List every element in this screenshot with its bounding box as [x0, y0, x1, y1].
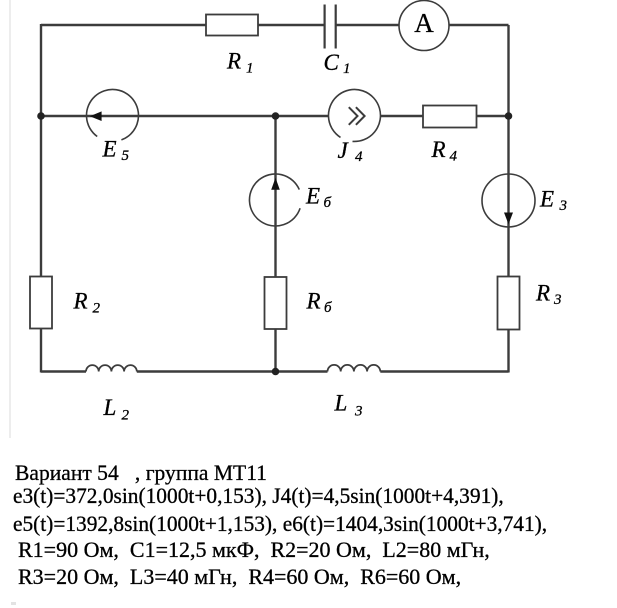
svg-text:1: 1	[343, 61, 351, 77]
wire: bottom between L2 and middle node	[137, 370, 328, 372]
svg-text:3: 3	[354, 404, 363, 420]
source E6	[249, 174, 300, 226]
capacitor C1	[325, 5, 336, 49]
svg-text:3: 3	[553, 292, 562, 308]
wire: left vertical below R2	[40, 329, 42, 373]
wire: middle vertical below R6	[274, 329, 276, 372]
svg-text:5: 5	[122, 148, 130, 164]
node C (right)	[505, 112, 513, 120]
svg-text:L: L	[334, 391, 348, 416]
svg-text:E: E	[539, 187, 554, 212]
resistor R4	[423, 106, 477, 128]
svg-text:A: A	[414, 8, 434, 38]
wire: top right (ammeter to right corner)	[449, 24, 509, 26]
source E5	[86, 89, 138, 139]
resistor R6	[265, 277, 287, 329]
label E6	[305, 184, 332, 212]
wire: bottom left	[41, 370, 86, 372]
wire: right vertical branch through E3	[507, 25, 509, 277]
label J4	[338, 138, 364, 165]
svg-text:4: 4	[355, 149, 363, 165]
svg-text:R: R	[431, 137, 446, 162]
svg-text:2: 2	[93, 301, 101, 317]
wire: left vertical branch	[40, 24, 42, 277]
text: values line 1	[13, 537, 490, 563]
svg-text:R: R	[73, 289, 88, 314]
label R4	[431, 137, 458, 164]
svg-text:E: E	[102, 137, 117, 162]
label E5	[102, 137, 130, 165]
svg-text:3: 3	[559, 198, 568, 214]
node D (bottom middle)	[272, 368, 280, 376]
wire: top middle (R1 to C1)	[258, 24, 324, 26]
label L3	[334, 391, 363, 420]
label R3	[535, 281, 562, 309]
source E3	[482, 174, 535, 227]
svg-text:4: 4	[450, 148, 458, 164]
label C1	[324, 50, 351, 77]
text: variant heading	[15, 460, 267, 486]
wire: right vertical below R3	[507, 330, 509, 373]
svg-text:J: J	[338, 138, 350, 163]
label L2	[103, 395, 130, 424]
wire: J4 to R4	[381, 115, 424, 117]
wire: bottom right	[380, 370, 508, 372]
source J4	[328, 89, 380, 141]
label R1	[226, 49, 254, 77]
svg-text:R: R	[535, 281, 550, 306]
wire: top left horizontal (node A to R1)	[41, 24, 206, 26]
svg-text:E: E	[305, 184, 320, 209]
svg-text:C: C	[324, 50, 340, 75]
node A (left)	[37, 112, 45, 120]
label E3	[539, 187, 567, 215]
svg-text:L: L	[103, 395, 117, 420]
text: e3 equation	[13, 483, 504, 509]
wire: middle vertical through E6	[274, 116, 276, 277]
svg-text:R: R	[226, 49, 241, 74]
text: e5 equation	[13, 511, 547, 537]
svg-text:б: б	[324, 195, 332, 211]
inductor L2	[86, 365, 137, 371]
resistor R1	[206, 15, 258, 36]
label R6	[306, 289, 333, 317]
label R2	[73, 289, 101, 317]
svg-text:2: 2	[122, 408, 130, 424]
text: values line 2	[13, 564, 462, 590]
svg-text:R: R	[306, 289, 321, 314]
wire: top (C1 to ammeter)	[336, 24, 399, 26]
resistor R3	[498, 277, 520, 330]
inductor L3	[328, 365, 381, 372]
wire: R4 to right node	[477, 115, 509, 117]
wire: middle horizontal through E5	[41, 115, 329, 117]
ammeter U1	[399, 1, 449, 51]
svg-text:б: б	[324, 300, 332, 316]
faint speck bottom left	[11, 602, 16, 605]
resistor R2	[30, 277, 52, 329]
faint page margin line	[9, 0, 11, 438]
svg-text:1: 1	[246, 61, 254, 77]
node B (middle)	[272, 112, 280, 120]
